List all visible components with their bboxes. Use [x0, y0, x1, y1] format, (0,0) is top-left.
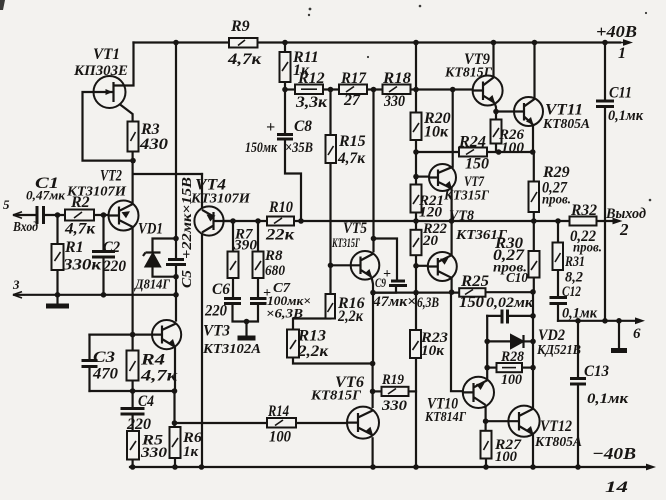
wire R28 right lead	[522, 367, 533, 369]
svg-text:4,7к: 4,7к	[140, 368, 178, 385]
capacitor C11 0.1u	[596, 101, 614, 107]
wire VT2 collector down to VT3 base node	[132, 227, 134, 335]
svg-text:220: 220	[126, 416, 151, 433]
svg-text:4,7к: 4,7к	[64, 221, 96, 238]
transistor VT12 KT805A bottom output	[508, 406, 539, 437]
diode VD2 KD521V	[511, 335, 524, 348]
terminal arrow node 6	[635, 317, 645, 324]
wire C9 bottom branch	[373, 286, 396, 293]
capacitor C12 0.1u	[550, 298, 568, 304]
svg-text:+: +	[383, 267, 391, 282]
svg-text:4,7к: 4,7к	[337, 150, 366, 167]
node ground rail junctions	[55, 292, 61, 298]
node R24 line	[413, 149, 419, 155]
wire R19 left lead	[373, 390, 382, 392]
transistor VT3 KT3102A npn	[152, 320, 181, 349]
svg-text:20: 20	[422, 233, 439, 249]
wire VT5 base lead	[331, 264, 351, 266]
svg-text:VT3: VT3	[203, 323, 230, 340]
svg-text:КТ805А: КТ805А	[542, 117, 590, 132]
svg-text:150: 150	[459, 294, 484, 311]
wire R17 R18 link	[367, 88, 383, 90]
svg-text:100: 100	[501, 140, 525, 156]
svg-text:1к: 1к	[183, 444, 199, 460]
ground symbol node 6	[611, 348, 627, 353]
svg-text:100: 100	[501, 372, 522, 388]
svg-text:430: 430	[139, 136, 168, 153]
svg-text:КТ3107И: КТ3107И	[190, 192, 251, 207]
wire VT11 emitter lead	[532, 125, 534, 152]
ground symbol C6 C7	[238, 336, 256, 341]
svg-text:22к: 22к	[265, 227, 295, 244]
svg-text:КТ815Г: КТ815Г	[310, 389, 362, 404]
wire R7 top lead	[232, 221, 234, 252]
wire VT8 node down to VT10 base	[451, 292, 463, 391]
svg-text:6,3В: 6,3В	[417, 295, 439, 311]
capacitor C2 220	[92, 252, 115, 258]
svg-text:6: 6	[633, 326, 641, 342]
node R4 C4 junction	[130, 388, 136, 394]
wire R11 bottom lead	[284, 82, 286, 90]
svg-text:КП303Е: КП303Е	[73, 63, 128, 79]
wire input ground rail node 3	[14, 294, 176, 296]
node C6 C7 ground junction	[244, 319, 250, 325]
wire R6 bottom	[174, 458, 176, 467]
capacitor C1 0.47u input	[37, 206, 44, 224]
svg-text:КТ814Г: КТ814Г	[424, 410, 466, 425]
node C10 right	[530, 313, 536, 319]
wire VT8 base lead	[416, 265, 428, 267]
svg-text:КТ3102А: КТ3102А	[202, 342, 261, 357]
wire VT7 collector riser	[452, 90, 454, 167]
svg-text:R17: R17	[340, 70, 367, 87]
svg-text:680: 680	[265, 263, 285, 279]
wire R4 leads	[132, 335, 134, 391]
wire VD1 parallel loop	[153, 239, 177, 277]
svg-text:0,47мк: 0,47мк	[26, 188, 65, 203]
node R6 R14 junction	[172, 420, 178, 426]
svg-text:0,1мк: 0,1мк	[587, 391, 628, 407]
wire VT7 emitter to bus	[451, 187, 453, 221]
transistor VT10 KT814G pnp driver	[463, 377, 494, 408]
wire VT8 top lead	[451, 221, 453, 255]
wire VT4 collector to -40 rail	[201, 232, 203, 467]
wire C6 C7 bottom junction line	[233, 304, 259, 322]
resistor R31 8.2	[553, 243, 564, 271]
svg-text:+22мк×15В: +22мк×15В	[180, 177, 195, 259]
svg-text:R19: R19	[381, 372, 404, 388]
svg-text:КД521В: КД521В	[536, 343, 581, 358]
svg-text:R32: R32	[570, 202, 597, 219]
svg-text:С3: С3	[93, 349, 115, 366]
resistor R16 2.2k	[326, 294, 336, 319]
svg-text:390: 390	[233, 238, 258, 254]
wire -40V bottom rail	[130, 466, 646, 468]
resistor R6 1k	[170, 427, 181, 458]
svg-text:2,2к: 2,2к	[337, 308, 364, 325]
svg-text:4,7к: 4,7к	[227, 51, 262, 68]
svg-text:С5: С5	[180, 270, 195, 288]
svg-text:КТ815Г: КТ815Г	[444, 66, 493, 81]
node R12 R17 R15	[328, 87, 334, 93]
transistor VT2 KT3107I pnp	[109, 201, 139, 231]
wire C10 left plate link	[487, 315, 501, 317]
node VT3 emitter junction	[172, 388, 178, 394]
wire x487 column to VT10 collector	[486, 316, 488, 380]
node R17 R18 VT5 collector	[371, 87, 377, 93]
node VT8 base tap	[413, 263, 419, 269]
svg-text:VT2: VT2	[100, 168, 122, 185]
wire R8 top lead	[257, 221, 259, 252]
wire R31 top to bus	[557, 221, 559, 243]
wire ground stub node 6	[618, 321, 620, 348]
svg-text:10к: 10к	[421, 343, 444, 359]
transistor VT8 KT361G protection pnp	[428, 252, 457, 281]
wire output terminal segment	[597, 220, 615, 222]
wire R19 right lead	[409, 390, 417, 392]
svg-text:Д814Г: Д814Г	[133, 278, 170, 293]
resistor R12 3.3k	[295, 85, 323, 95]
wire R1 leads	[56, 215, 58, 295]
ground symbol input	[46, 304, 69, 309]
svg-text:5: 5	[3, 197, 10, 212]
resistor R27 100	[481, 431, 492, 459]
resistor R8 680	[253, 252, 264, 279]
svg-text:R29: R29	[542, 164, 570, 181]
svg-text:120: 120	[419, 205, 443, 221]
wire sense line right of R25	[486, 291, 534, 293]
wire R18 right to VT9 base line	[411, 88, 473, 90]
terminal arrow +40V	[623, 39, 633, 46]
wire R5 bottom	[132, 460, 134, 468]
wire VT12 base lead	[486, 420, 509, 422]
wire C8 top lead	[284, 90, 286, 135]
svg-text:+: +	[266, 119, 275, 136]
wire R12 left lead	[285, 88, 295, 90]
wire R20 bottom to R21 top	[415, 140, 417, 185]
node VD2 left	[484, 339, 490, 345]
svg-text:R10: R10	[268, 199, 293, 216]
svg-text:470: 470	[92, 366, 118, 383]
svg-text:R4: R4	[140, 352, 165, 369]
wire VT3 emitter bottom line	[90, 390, 175, 392]
svg-text:330: 330	[140, 445, 168, 461]
wire R22 bottom to VT8 base	[415, 255, 417, 292]
wire VT3 base line with C3 R4 top	[90, 334, 153, 336]
wire C3 left branch	[88, 335, 90, 391]
svg-text:100: 100	[269, 429, 291, 446]
wire VT2 emitter lead	[132, 174, 134, 205]
wire VT7 base lead	[416, 176, 429, 178]
svg-text:150мк: 150мк	[245, 140, 278, 156]
svg-text:R28: R28	[500, 349, 524, 365]
capacitor C7 100u electrolytic	[250, 299, 267, 304]
resistor R21 120	[411, 185, 422, 213]
wire VT9 collector riser	[492, 43, 494, 77]
svg-text:С4: С4	[138, 393, 154, 410]
svg-text:R31: R31	[564, 254, 585, 270]
svg-text:R15: R15	[338, 133, 366, 150]
capacitor C5 22u electrolytic	[166, 260, 186, 265]
resistor R32 0.22	[570, 217, 597, 226]
svg-text:0,1мк: 0,1мк	[608, 108, 643, 124]
resistor R29 0.27	[529, 182, 540, 213]
resistor R4 4.7k	[127, 351, 139, 381]
svg-text:330: 330	[383, 93, 405, 110]
svg-text:220: 220	[102, 258, 126, 275]
wire R28 left lead	[487, 367, 496, 369]
resistor R17 27	[339, 85, 367, 95]
wire VT4 base to bus	[224, 220, 233, 222]
node sense line junctions	[413, 290, 419, 296]
wire VT12 emitter to rail	[532, 434, 534, 467]
wire VT3 collector to ground rail	[175, 295, 177, 321]
svg-text:VD1: VD1	[138, 221, 163, 238]
capacitor C4 220	[121, 409, 145, 415]
transistor VT7 KT315G protection npn	[429, 164, 456, 191]
resistor R22 20	[411, 230, 422, 255]
wire VT11 base lead	[496, 110, 514, 112]
wire C10 right plate link	[509, 315, 534, 317]
svg-text:0,02мк: 0,02мк	[486, 295, 533, 311]
resistor R30 0.27	[529, 251, 540, 278]
resistor R14 100	[267, 418, 296, 428]
resistor R24 150	[459, 148, 487, 157]
wire C13 bottom to -40 rail	[577, 384, 579, 467]
node R28 left	[484, 365, 490, 371]
svg-text:R25: R25	[460, 273, 489, 290]
wire input line to C1	[14, 214, 37, 216]
stray scan specks	[309, 8, 312, 11]
resistor R9 4.7k	[229, 38, 258, 48]
svg-text:10к: 10к	[424, 124, 449, 141]
svg-text:КТ315Г: КТ315Г	[443, 189, 489, 204]
node R18 bias chain	[413, 87, 419, 93]
node input line junctions	[55, 212, 61, 218]
wire R3 bottom to emitter bus	[132, 152, 134, 175]
svg-text:VD2: VD2	[538, 327, 565, 344]
wire R23 top lead	[415, 293, 417, 330]
wire VD2 right lead	[524, 340, 534, 342]
resistor R28 100	[497, 363, 523, 372]
wire R21 bottom to bus	[415, 213, 417, 222]
wire R15 bottom to VT5 base crossing bus	[329, 163, 331, 265]
svg-text:R14: R14	[267, 403, 289, 420]
svg-text:0,1мк: 0,1мк	[562, 306, 597, 322]
wire VT8 bottom lead	[451, 278, 453, 293]
svg-text:1: 1	[618, 45, 626, 62]
wire x416 bias chain top	[415, 43, 417, 113]
svg-text:−40В: −40В	[592, 444, 636, 463]
node R26 bottom	[496, 149, 502, 155]
wire C5 bottom to ground rail	[175, 265, 177, 295]
wire output stack x533 down to VT12 collector	[532, 292, 534, 409]
wire R13 bottom line to VT6 collector node	[293, 358, 373, 364]
wire R16 bottom to R13 top	[293, 319, 330, 330]
wire R30 bottom lead	[533, 278, 535, 292]
svg-text:VT1: VT1	[93, 46, 120, 63]
svg-text:100: 100	[495, 449, 517, 465]
svg-text:×35В: ×35В	[285, 140, 313, 156]
svg-text:47мк×: 47мк×	[372, 294, 416, 310]
resistor R10 22k	[267, 217, 294, 226]
wire protection sense line y292	[373, 292, 459, 294]
wire R11 top lead	[284, 43, 286, 53]
wire R31 to C12	[557, 270, 559, 298]
wire C8 bootstrap branch to bus	[285, 139, 301, 221]
resistor R26 100	[491, 120, 502, 144]
svg-text:VT12: VT12	[540, 418, 572, 435]
node zener bottom	[173, 274, 179, 280]
wire C12 bottom to ground line	[557, 304, 559, 321]
wire ground symbol stub at input	[56, 295, 58, 303]
wire VT6 emitter to rail	[372, 438, 374, 467]
terminal arrow output	[613, 218, 623, 225]
node VT7 base tap	[413, 174, 419, 180]
wire C1 to R2	[44, 214, 66, 216]
node R3 gate junction	[130, 158, 136, 164]
wire VT5 emitter lead	[372, 277, 374, 293]
terminal arrow input Vhod	[13, 212, 24, 218]
resistor R15 4.7k	[326, 135, 337, 163]
wire VT3 emitter to R6 junction	[174, 347, 176, 391]
resistor R19 330	[382, 387, 409, 396]
capacitor C3 470	[82, 361, 98, 367]
wire C2 leads	[102, 215, 104, 295]
svg-text:R9: R9	[230, 18, 250, 35]
node R28 right	[530, 365, 536, 371]
node VT5 base	[328, 263, 334, 269]
transistor VT6 KT815G driver	[347, 407, 379, 439]
wire R2 to VT2 base	[94, 214, 109, 216]
wire R27 bottom to rail	[485, 459, 487, 468]
resistor R18 330	[383, 85, 411, 95]
node zener top	[173, 236, 179, 242]
svg-text:150: 150	[465, 156, 489, 173]
wire VD2 left lead	[487, 340, 511, 342]
svg-text:R12: R12	[297, 70, 325, 87]
resistor R25 150	[459, 288, 485, 297]
wire R6 top lead	[173, 391, 175, 427]
svg-text:+40В: +40В	[596, 22, 637, 41]
wire VT6 collector riser	[372, 364, 374, 407]
diode VD1 zener D814G	[143, 253, 161, 267]
wire R24 left lead	[416, 151, 459, 153]
wire R30 top lead	[533, 221, 535, 251]
node top rail junctions	[173, 40, 179, 46]
wire ground node 6 line	[558, 320, 637, 322]
svg-text:R24: R24	[458, 134, 486, 151]
svg-text:R8: R8	[264, 248, 283, 264]
svg-text:С10: С10	[506, 271, 528, 286]
resistor R11 1k	[280, 52, 291, 82]
wire zener feed line from top rail	[175, 43, 177, 260]
wire C4 lead	[132, 391, 134, 409]
wire C11 bottom down to ground line	[604, 107, 606, 321]
capacitor C8 150u electrolytic	[277, 135, 293, 140]
node VT7 collector VT9 base	[450, 87, 456, 93]
node VT12 base R27	[483, 418, 489, 424]
svg-text:VT8: VT8	[449, 208, 474, 224]
wire R8 bottom to C7	[257, 278, 259, 299]
capacitor C10 0.02u	[502, 310, 508, 324]
wire VT1 source to R3	[114, 100, 133, 122]
wire R7 bottom to C6	[232, 278, 234, 299]
resistor R20 10k	[411, 113, 422, 141]
transistor VT4 KT3107I pnp	[194, 206, 223, 235]
svg-text:КТ805А: КТ805А	[534, 435, 582, 450]
wire VT10 emitter down to VT12 base node	[485, 405, 487, 421]
node VD2 right	[530, 339, 536, 345]
svg-text:330к: 330к	[62, 257, 102, 274]
svg-text:3,3к: 3,3к	[295, 94, 328, 111]
wire VT1 gate loop	[83, 92, 134, 161]
wire R29 bottom to bus	[533, 212, 535, 221]
wire R16 top lead	[329, 265, 331, 294]
svg-text:R18: R18	[382, 70, 411, 87]
wire R24 right to VT11 emitter node	[487, 151, 533, 153]
svg-text:С11: С11	[609, 85, 632, 102]
svg-text:330: 330	[381, 398, 408, 414]
wire VT1 drain riser	[124, 43, 133, 86]
svg-text:С8: С8	[294, 118, 312, 135]
svg-text:×6,3В: ×6,3В	[266, 306, 303, 321]
wire VT9 emitter to R26	[495, 103, 497, 120]
resistor R23 10k	[410, 330, 421, 358]
resistor R1 330k	[52, 244, 64, 270]
svg-text:R1: R1	[64, 239, 84, 256]
node VT11 emitter R29	[530, 149, 536, 155]
svg-text:С6: С6	[212, 281, 230, 298]
node ground line junctions	[575, 318, 581, 324]
wire +40V top rail	[134, 41, 621, 43]
wire R14 line R6 to VT6 base	[175, 422, 348, 424]
transistor VT5 KT315G npn vas	[351, 251, 380, 280]
wire VT5 emitter node down to R13 line	[372, 293, 374, 364]
wire R29 top lead	[533, 152, 535, 182]
svg-text:3: 3	[12, 277, 20, 292]
wire diff pair emitter bus	[133, 173, 202, 175]
node R19 VT6 collector	[370, 389, 376, 395]
node R11 C8 R12	[282, 87, 288, 93]
wire C13 top lead	[577, 321, 579, 379]
wire VT4 emitter lead	[201, 174, 203, 210]
svg-text:С2: С2	[103, 239, 120, 256]
svg-text:VT11: VT11	[545, 102, 583, 119]
svg-text:R2: R2	[70, 194, 90, 211]
capacitor C6 220	[224, 299, 241, 304]
wire C9 top branch	[374, 239, 398, 282]
svg-text:2,2к: 2,2к	[297, 343, 329, 360]
wire +40V rail arrow to terminal 1	[620, 42, 626, 44]
wire C11 top lead	[604, 43, 606, 102]
wire R12 R17 link	[323, 88, 339, 90]
wire VT11 collector riser	[533, 43, 535, 99]
node mid bus junctions	[230, 218, 236, 224]
svg-text:КТ315Г: КТ315Г	[331, 235, 360, 250]
resistor R2 4.7k	[65, 210, 94, 221]
wire R27 top lead	[485, 421, 487, 431]
svg-text:R13: R13	[297, 328, 326, 345]
svg-text:Вход: Вход	[12, 220, 38, 235]
capacitor C13 0.1u	[570, 379, 586, 385]
svg-text:27: 27	[343, 92, 361, 109]
wire output mid bus	[224, 220, 597, 222]
svg-text:14: 14	[605, 479, 628, 496]
node R13 VT6 collector	[370, 361, 376, 367]
svg-text:С12: С12	[562, 284, 581, 300]
svg-text:220: 220	[204, 303, 227, 320]
